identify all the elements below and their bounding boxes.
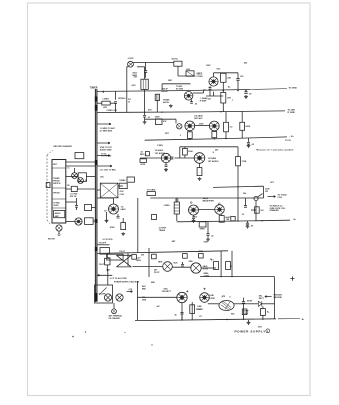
wire V1 plate to top rail (214, 73, 239, 77)
wire T1 to rail B (144, 89, 146, 112)
resistor R1 (221, 73, 232, 82)
node speck 2 (85, 331, 86, 332)
resistor R13 (121, 218, 126, 236)
node vol pot label (107, 110, 119, 112)
node AVC arrow 3 (97, 154, 110, 157)
pilot lamp PL3 (72, 173, 78, 179)
node callout e3 (225, 216, 230, 219)
svg-text:RED: RED (142, 288, 147, 290)
node pilot label (120, 251, 127, 253)
node ant label (109, 315, 123, 320)
wire rail C (145, 136, 295, 140)
wire V6 cathode chain (197, 163, 202, 180)
wire changer top links (66, 153, 96, 167)
antenna loop L1 label (128, 58, 135, 60)
svg-text:DET AVC: DET AVC (194, 117, 203, 120)
svg-text:RED: RED (151, 282, 156, 284)
node TUNER label (90, 87, 98, 89)
svg-text:470K: 470K (110, 226, 115, 229)
oscillator coil L2 (186, 69, 194, 76)
wire on-off line (97, 243, 110, 245)
tube V3 label (194, 115, 203, 121)
wire V1 cathode (206, 92, 223, 96)
node note mid right (0, 0, 1, 1)
svg-text:BRN: BRN (158, 262, 163, 264)
svg-text:40MF: 40MF (244, 309, 250, 312)
wire T2 bottom lead (148, 100, 157, 112)
svg-text:1/2: 1/2 (104, 211, 107, 213)
node spare2 (0, 0, 1, 1)
capacitor C7 (143, 112, 152, 124)
svg-text:.1: .1 (232, 100, 234, 102)
svg-text:OSC: OSC (100, 177, 105, 179)
svg-text:1 MEG: 1 MEG (157, 145, 163, 147)
svg-text:40: 40 (175, 313, 177, 316)
svg-text:500: 500 (243, 193, 246, 195)
node output label (164, 197, 221, 207)
capacitor C18 (40MF) (242, 298, 253, 320)
node speck 4 (124, 332, 125, 333)
svg-text:100K: 100K (188, 151, 193, 153)
svg-text:WDG: WDG (136, 260, 141, 262)
capacitor C3 (.05) (244, 91, 252, 96)
resistor R3 (1 MEG) (97, 98, 110, 109)
tube V2 6BA6 IF amp (184, 92, 193, 101)
node callout d2 (104, 211, 107, 213)
tube V8 output 2 (215, 205, 225, 215)
resistor R21 (85, 205, 92, 211)
svg-text:MOTOR: MOTOR (48, 238, 55, 240)
wire tuner bus (double vertical) (95, 89, 97, 302)
node callout a4 (208, 99, 211, 101)
resistor R10 (236, 147, 247, 198)
node callout c5 (151, 282, 156, 284)
wire ps vertical 2 (231, 251, 233, 277)
svg-text:3: 3 (180, 135, 181, 137)
wire osc links (97, 186, 123, 190)
svg-text:2ND: 2ND (168, 80, 172, 82)
node changer label (54, 145, 73, 148)
node callout a7 (168, 80, 172, 82)
node chassis ground label (273, 293, 282, 298)
svg-text:ON CHASSIS: ON CHASSIS (109, 317, 121, 320)
resistor R5 (500K) (155, 116, 167, 124)
resistor R18 (260, 309, 270, 316)
svg-text:6AV6: 6AV6 (203, 265, 208, 268)
svg-text:1/2 6AV6: 1/2 6AV6 (194, 115, 203, 118)
resistor R19 (99, 253, 110, 271)
node rail E end label (231, 216, 297, 220)
svg-text:TRANS: TRANS (159, 229, 166, 232)
tube V1 6BE6 converter label (197, 74, 204, 79)
wire trimmer to osc (178, 66, 196, 76)
node pad label (70, 192, 78, 197)
wire bus tap phono (97, 165, 117, 172)
svg-text:470K: 470K (140, 163, 145, 166)
wire rail B (AVC rail) (97, 111, 285, 113)
wire 6X4 leads (138, 297, 183, 320)
node V13 label (203, 265, 209, 271)
svg-text:1ST AUDIO: 1ST AUDIO (208, 160, 219, 163)
ground below C3 (244, 95, 248, 98)
node filament label (204, 273, 210, 278)
node callout b3 (145, 152, 149, 156)
svg-text:12BE6: 12BE6 (119, 180, 126, 182)
wire CR1 links (247, 304, 275, 320)
capacitor C17 (40MF) (156, 305, 183, 320)
capacitor C8 (247, 138, 255, 147)
node speck 3 (151, 344, 152, 345)
svg-text:→ B+: → B+ (289, 136, 295, 138)
node rail A end label (250, 88, 297, 90)
tube V6 audio (194, 153, 205, 164)
node T2 label (162, 89, 173, 108)
wire vertical feed x=144.6 (137, 67, 145, 79)
resistor R17 (190, 302, 201, 320)
wire heater cross (116, 255, 131, 267)
node callout c4 (211, 259, 214, 261)
capacitor C11 (175, 198, 178, 201)
IF transformer T1 (141, 79, 148, 89)
svg-text:6.3: 6.3 (211, 259, 214, 261)
resistor R14 (71, 186, 77, 191)
svg-text:ON-OFF: ON-OFF (99, 294, 106, 296)
svg-text:SEC: SEC (231, 313, 235, 315)
node ac arrow left (98, 274, 113, 276)
svg-text:.02: .02 (194, 104, 197, 106)
capacitor C2 (236, 73, 244, 91)
node callout d6 (48, 238, 55, 240)
IF transformer T2 (155, 94, 159, 100)
ground V9 (105, 212, 109, 222)
wire V2 grid lead (0, 0, 1, 1)
node callout c9 (231, 313, 235, 315)
resistor R16 (226, 262, 233, 270)
svg-text:47: 47 (230, 265, 232, 268)
wire heater link (133, 267, 217, 269)
svg-text:12: 12 (128, 101, 130, 103)
antenna terminal (112, 303, 117, 314)
wire block links (107, 269, 109, 285)
svg-text:270K: 270K (242, 161, 247, 163)
wire rail E (177, 220, 290, 222)
svg-text:#47: #47 (156, 305, 159, 308)
node rail B end label (288, 110, 296, 115)
svg-text:220K: 220K (199, 124, 204, 126)
node POWER SUPPLY title (235, 330, 267, 334)
selenium rectifier CR1 (258, 301, 261, 306)
resistor R6 (224, 112, 234, 139)
tube V13 heater lamp (191, 263, 201, 273)
connector block (52, 160, 66, 224)
switch box S2 (107, 254, 123, 260)
wire ps top rail (198, 251, 274, 319)
svg-text:FW RECT: FW RECT (162, 291, 172, 293)
terminal box (119, 177, 134, 196)
svg-text:PILOT: PILOT (154, 272, 160, 274)
tube V5 1st audio (161, 153, 170, 162)
svg-text:47K 1W: 47K 1W (70, 195, 77, 198)
svg-text:1ST AUDIO: 1ST AUDIO (155, 152, 166, 155)
node V6 label (208, 157, 219, 163)
resistor R8 (grid) (140, 158, 161, 166)
svg-text:OSC: OSC (132, 85, 137, 87)
antenna loop L1 (128, 61, 134, 67)
resistor R9 (183, 147, 194, 158)
svg-text:4.7 MEG BUS: 4.7 MEG BUS (100, 129, 113, 132)
svg-text:500K: 500K (155, 116, 160, 118)
node callout c8 (222, 296, 226, 298)
svg-text:33: 33 (85, 180, 87, 182)
node AVC arrow 2 (97, 142, 113, 151)
svg-text:TO PHONO: TO PHONO (101, 155, 112, 157)
svg-text:40 MF: 40 MF (247, 299, 253, 302)
svg-text:MEG: MEG (140, 154, 145, 156)
node volts label (103, 239, 114, 241)
svg-text:ON-OFF: ON-OFF (99, 243, 107, 245)
wire heater top rail (97, 240, 228, 266)
svg-text:1 MEG: 1 MEG (102, 98, 109, 100)
switch box S1 (100, 248, 110, 255)
node callout d3 (67, 168, 69, 170)
node chassis ground arrow (265, 296, 272, 298)
svg-text:CORD: CORD (209, 298, 215, 300)
svg-text:POWER SUPPLY SECTION: POWER SUPPLY SECTION (114, 282, 140, 284)
node osc box label (119, 180, 126, 182)
node callout c3 (188, 261, 193, 263)
svg-text:ALIGN: ALIGN (163, 101, 170, 104)
node T1 label (132, 77, 138, 87)
svg-text:6AQ5: 6AQ5 (225, 216, 230, 219)
node C5 label (118, 98, 126, 100)
svg-text:CORD: CORD (197, 309, 203, 311)
capacitor C6 (176, 85, 204, 105)
svg-text:R2: R2 (67, 185, 69, 187)
node PHONES label (268, 195, 288, 199)
pilot lamp PL1 (104, 294, 111, 301)
pilot lamp PL2 (116, 294, 123, 301)
node phono tap label (101, 155, 112, 157)
svg-text:6TR600: 6TR600 (118, 98, 126, 100)
dashed boundary (46, 150, 53, 225)
svg-text:6.3 V TO ALL HTRS: 6.3 V TO ALL HTRS (110, 277, 128, 280)
node wire code (174, 262, 179, 264)
svg-text:L.R. OSC TO REC: L.R. OSC TO REC (100, 170, 117, 172)
capacitor C5 (110, 91, 117, 112)
node speaker note (270, 204, 287, 212)
svg-text:GRN: GRN (188, 261, 193, 263)
svg-text:22K: 22K (227, 78, 231, 80)
node T3 labels (209, 295, 231, 300)
svg-text:LOOP: LOOP (128, 58, 135, 60)
wire ps mid vertical (137, 281, 139, 320)
svg-text:6BE6: 6BE6 (198, 251, 203, 253)
capacitor C14 (75, 202, 78, 210)
svg-text:6.3 VOLTS: 6.3 VOLTS (103, 239, 114, 241)
tube V9 phono amp (109, 204, 119, 214)
node callout c6 (142, 286, 147, 290)
node plus mark (290, 277, 294, 281)
tube V10 small (75, 218, 82, 225)
capacitor blob C19 (177, 124, 182, 129)
svg-text:GROUND: GROUND (273, 297, 282, 299)
resistor R20 (180, 131, 217, 140)
tube V16 rect section (200, 288, 210, 303)
node callout a8 (128, 99, 131, 104)
wire V5 cathode chain (164, 163, 168, 172)
svg-text:BLK: BLK (174, 262, 179, 264)
node 115V label (258, 327, 263, 329)
svg-text:SW: SW (141, 255, 144, 257)
wire V3-V4 link (195, 124, 210, 126)
svg-text:470K TO 1ST: 470K TO 1ST (100, 146, 113, 149)
svg-text:C1: C1 (67, 168, 69, 170)
wire T3 leads (208, 303, 247, 305)
node callout b1 (165, 133, 170, 135)
node lr arrow (127, 288, 133, 292)
resistor R7 (240, 112, 251, 139)
svg-text:180: 180 (260, 210, 263, 212)
svg-text:PILOT: PILOT (99, 264, 105, 266)
node grid ref label (147, 190, 156, 196)
tube V15 6X4 rectifier (177, 292, 187, 302)
svg-text:220: 220 (208, 99, 211, 101)
capacitor C16 (181, 262, 184, 266)
svg-text:AVC: AVC (148, 109, 152, 112)
wire rail A (plate rail) (97, 90, 250, 94)
svg-text:180: 180 (226, 219, 229, 221)
wire V7-V8 link (199, 209, 215, 211)
node CR1 label (259, 295, 265, 299)
svg-text:PRI: PRI (222, 296, 226, 298)
svg-text:SPEAKER: SPEAKER (270, 209, 280, 212)
svg-text:GND: GND (204, 242, 209, 244)
wire R1 bottom lead (222, 82, 224, 90)
pilot lamp PL4 (78, 178, 84, 184)
node section label (114, 282, 140, 284)
node coupling label (140, 152, 145, 157)
svg-text:POWER SUPPLY: POWER SUPPLY (235, 330, 267, 334)
wire V9 top (97, 198, 114, 204)
svg-text:220K: 220K (245, 126, 250, 128)
svg-text:150V: 150V (244, 313, 249, 315)
svg-text:BEAM PWR: BEAM PWR (203, 200, 215, 203)
footnote resistors (256, 140, 294, 152)
node callout c2 (158, 262, 163, 264)
wire stage top rail (180, 147, 238, 158)
capacitor C1 value (132, 72, 137, 77)
svg-text:1.5 MEG TO AVC: 1.5 MEG TO AVC (100, 127, 116, 130)
node callout a1 (206, 64, 211, 67)
node callout d1 (100, 177, 105, 179)
node callout d5 (85, 180, 87, 182)
trimmer CT1 (144, 59, 182, 78)
capacitor C13 (110, 214, 120, 229)
node AVC arrow 1 (97, 123, 116, 132)
svg-text:2W: 2W (265, 191, 268, 193)
node callout e2 (243, 193, 246, 195)
svg-text:KC PAD: KC PAD (176, 88, 184, 91)
svg-text:470: 470 (194, 215, 197, 218)
node callout e1 (270, 182, 275, 184)
svg-text:CONV: CONV (197, 76, 204, 78)
node 6.3V mark (107, 270, 112, 272)
terminal box TB1 (85, 218, 94, 225)
wire ps lower rail (0, 0, 1, 1)
node 6X4 label (162, 287, 189, 293)
wire loop to trimmer (127, 62, 174, 112)
tube V4 2nd section (209, 121, 219, 131)
node V9 label (121, 206, 127, 211)
wire T2 top lead (162, 84, 190, 90)
svg-text:RECORD CHANGER: RECORD CHANGER (54, 145, 73, 148)
svg-text:117: 117 (199, 316, 202, 318)
svg-text:455 KC: 455 KC (162, 90, 169, 93)
resistor R15 (210, 259, 218, 270)
svg-text:CHGR: CHGR (53, 205, 59, 207)
capacitor C10 (213, 149, 219, 153)
tube V3 6AV6 det (185, 121, 195, 131)
svg-text:GRN: GRN (142, 299, 147, 301)
node spare (0, 0, 1, 1)
svg-text:600 KC: 600 KC (172, 59, 179, 61)
wire changer mid links (66, 168, 96, 222)
resistor chain R11 (174, 201, 179, 221)
node V5 label (155, 149, 166, 155)
tube V7 6AQ5 output (189, 205, 199, 215)
phones jack J1 (251, 193, 263, 221)
svg-text:IF GRID: IF GRID (288, 112, 296, 114)
svg-text:1/2 6AV6: 1/2 6AV6 (208, 157, 217, 160)
node V16 label (197, 306, 203, 311)
tube V2 label (200, 96, 208, 103)
wire V7 below (192, 215, 196, 222)
power transformer T3 (219, 301, 234, 311)
switch box SW1 (95, 285, 113, 303)
svg-text:AUDIO: AUDIO (55, 212, 61, 215)
node V12 label (154, 269, 160, 275)
svg-text:SWITCH: SWITCH (53, 183, 61, 185)
node callout d4 (67, 185, 69, 187)
svg-text:47K: 47K (103, 106, 107, 109)
node title circle (266, 329, 270, 333)
switch detail box (78, 173, 86, 182)
svg-text:OSC: OSC (186, 69, 191, 71)
node htr label (110, 277, 128, 280)
node callout a6 (244, 62, 247, 65)
svg-text:1/2 6AV6: 1/2 6AV6 (155, 149, 164, 152)
node callout c7 (142, 297, 147, 301)
node cathode R label (152, 214, 229, 231)
wire ps vertical 1 (220, 251, 222, 277)
resistor R2 (221, 91, 232, 112)
node callout c1 (141, 255, 144, 257)
wire det grid line (145, 119, 176, 123)
svg-text:2 MEG VOL: 2 MEG VOL (107, 110, 119, 112)
svg-text:OSC: OSC (216, 69, 221, 71)
resistor R12 (242, 198, 264, 216)
tube V12 pilot lamp (163, 262, 173, 272)
svg-text:SPKR: SPKR (200, 229, 206, 231)
wire R4 leads (0, 0, 1, 1)
svg-text:RECT: RECT (259, 298, 265, 300)
node callout a2 (216, 69, 221, 71)
tube V1 6BE6 converter (209, 77, 218, 86)
wire ps bottom rail (135, 319, 305, 321)
node speck 1 (72, 336, 74, 338)
svg-text:455: 455 (244, 62, 247, 65)
capacitor C4 (203, 86, 211, 96)
